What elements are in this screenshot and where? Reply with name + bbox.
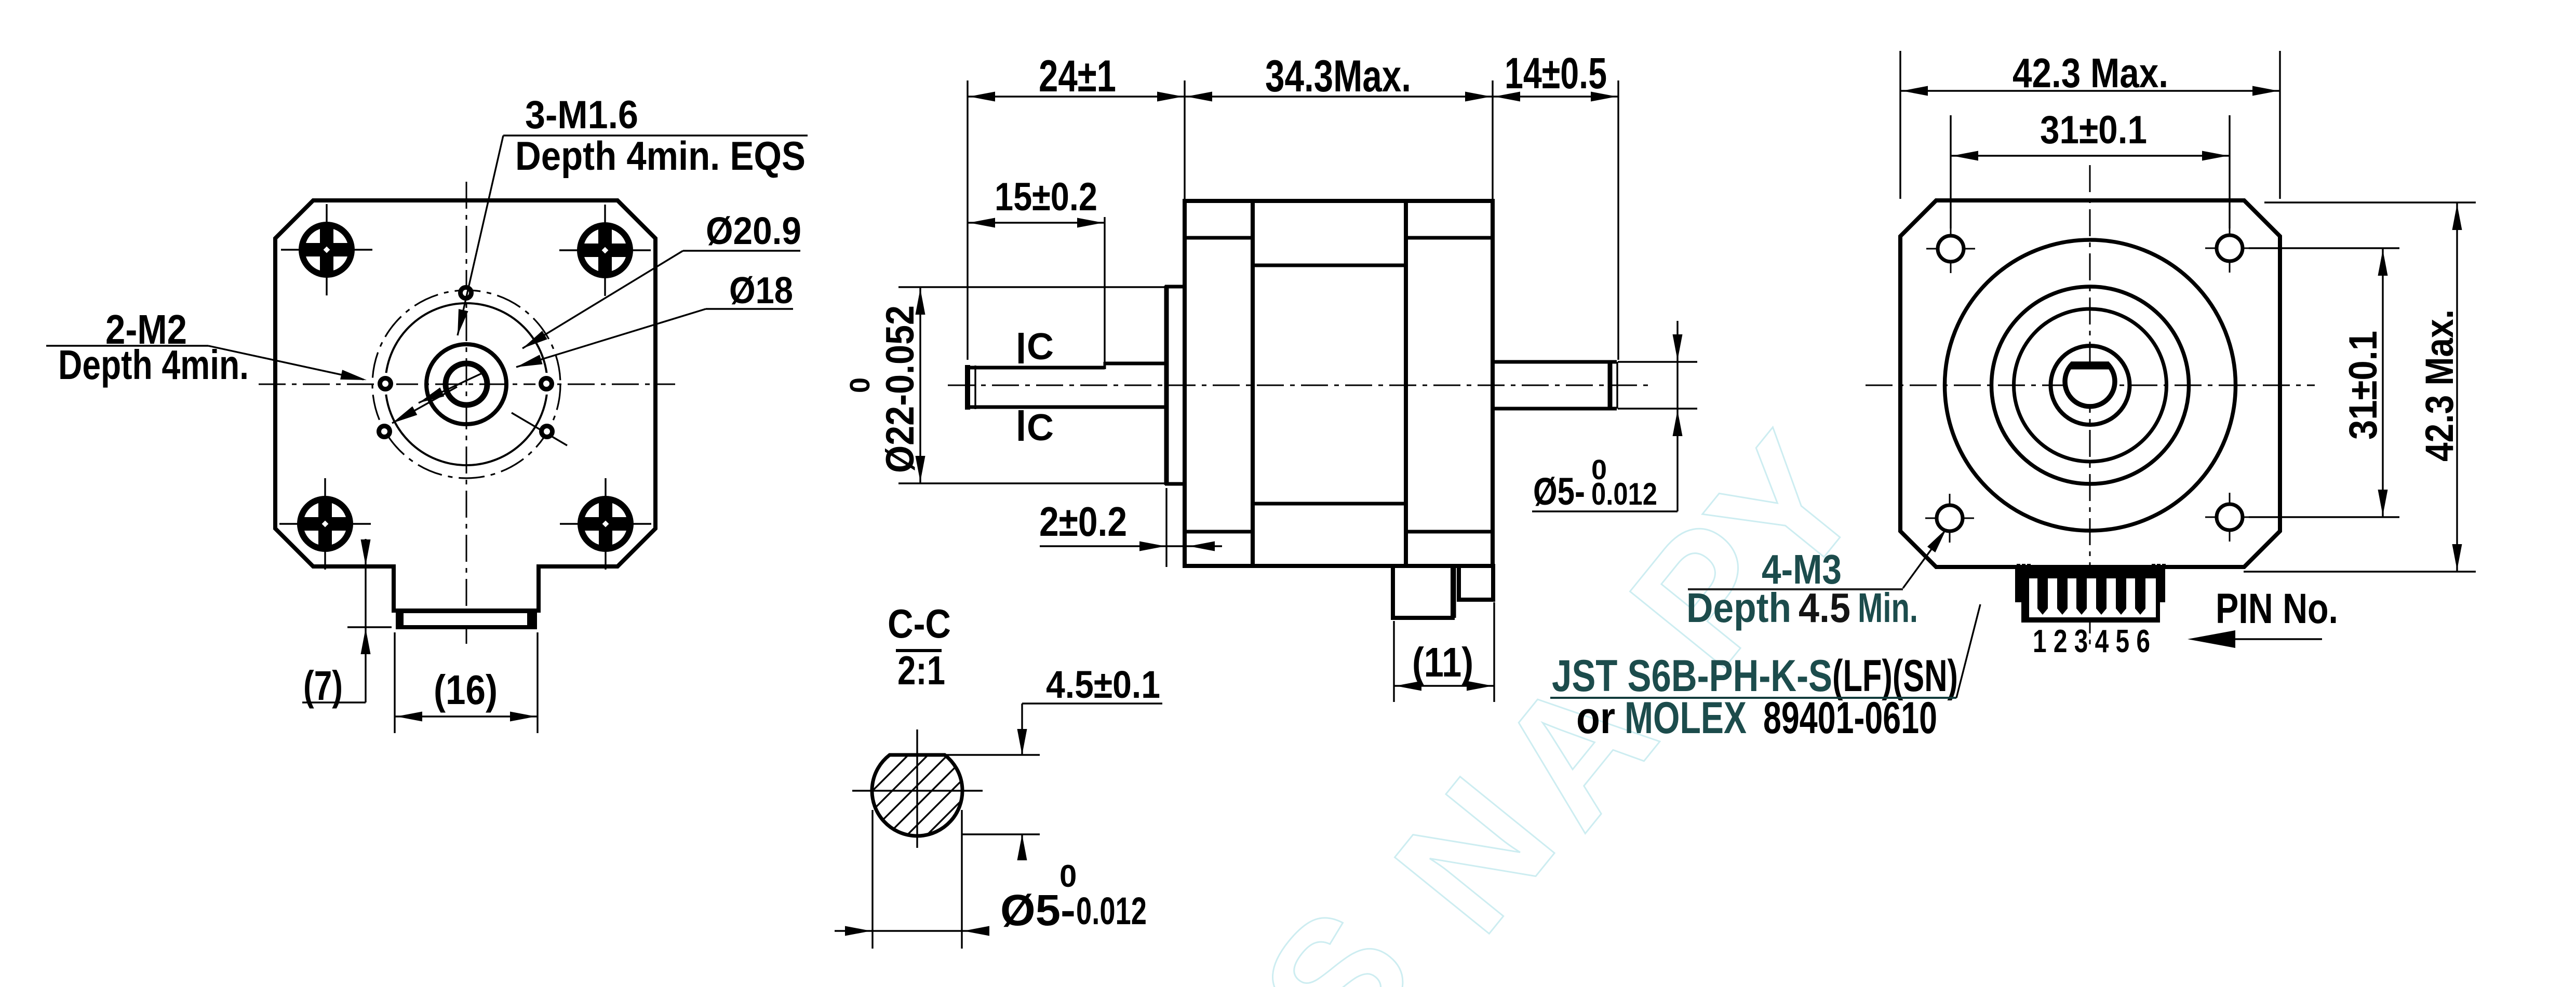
M3 hole bottom-right bbox=[2205, 493, 2254, 542]
rear connector cavity bbox=[2029, 578, 2156, 617]
svg-text:Ø5-: Ø5- bbox=[1533, 470, 1585, 513]
front endcap chamfer line bottom bbox=[1185, 530, 1253, 534]
extra leader arrow to lower area bbox=[419, 373, 483, 403]
extra leader arrow to lower-left hole bbox=[392, 387, 457, 423]
boss face extension line bbox=[1165, 488, 1167, 567]
side connector housing bbox=[1393, 566, 1453, 618]
svg-text:31±0.1: 31±0.1 bbox=[2040, 108, 2147, 152]
rear housing circle bbox=[1945, 240, 2236, 531]
rear 42.3 top extension lines bbox=[1899, 51, 1901, 199]
leader 2-M2 to left hole bbox=[208, 346, 364, 380]
svg-text:14±0.5: 14±0.5 bbox=[1505, 49, 1607, 98]
svg-text:C: C bbox=[1027, 326, 1054, 368]
svg-text:1 2 3 4 5 6: 1 2 3 4 5 6 bbox=[2033, 624, 2150, 659]
extension line front flange face bbox=[1184, 80, 1185, 199]
rear boss circle bbox=[2051, 346, 2130, 425]
extension line shaft end bbox=[967, 80, 968, 360]
(7) leader tail bbox=[302, 701, 366, 703]
Ø18 circle (solid) bbox=[385, 303, 547, 465]
connector pin 4 bbox=[2096, 578, 2107, 615]
svg-text:4.5±0.1: 4.5±0.1 bbox=[1046, 663, 1160, 706]
Ø22 dimension line bbox=[919, 287, 921, 483]
connector pin 2 bbox=[2057, 578, 2068, 615]
svg-text:MOLEX: MOLEX bbox=[1625, 693, 1747, 743]
front shaft end chamfer line bbox=[974, 366, 976, 409]
(11) extension lines bbox=[1393, 621, 1394, 702]
front endcap chamfer line top bbox=[1185, 236, 1253, 240]
rear endcap chamfer line top bbox=[1406, 236, 1493, 240]
front shaft end face bbox=[965, 365, 970, 410]
connector serrations right bbox=[2152, 564, 2155, 569]
svg-text:3-M1.6: 3-M1.6 bbox=[525, 93, 638, 137]
rear circle inner bbox=[2014, 309, 2167, 462]
svg-text:Depth: Depth bbox=[1686, 585, 1791, 631]
4.5 leader tail bbox=[1022, 702, 1162, 704]
pilot boss circle bbox=[426, 344, 506, 424]
svg-text:31±0.1: 31±0.1 bbox=[2341, 331, 2385, 440]
svg-text:15±0.2: 15±0.2 bbox=[995, 175, 1097, 219]
Ø5 extension lines right bbox=[1618, 361, 1697, 362]
section hatching bbox=[829, 662, 1050, 884]
svg-text:42.3 Max.: 42.3 Max. bbox=[2013, 50, 2168, 96]
motor body outline bbox=[1185, 201, 1493, 566]
front connector housing strip bbox=[398, 611, 535, 627]
M3 hole top-left bbox=[1926, 224, 1975, 273]
rear endcap chamfer line bottom bbox=[1406, 530, 1493, 534]
rear 42.3 right extension lines bbox=[2264, 201, 2476, 203]
pilot boss bottom edge bbox=[1165, 482, 1185, 486]
svg-text:Ø20.9: Ø20.9 bbox=[706, 209, 801, 252]
rear view horizontal centerline bbox=[1866, 385, 2315, 386]
(16) dimension line bbox=[395, 715, 538, 717]
M2 hole right bbox=[541, 378, 552, 389]
svg-text:Ø22-0.052: Ø22-0.052 bbox=[878, 305, 922, 473]
svg-text:(16): (16) bbox=[434, 667, 498, 713]
svg-text:C-C: C-C bbox=[888, 601, 951, 646]
Ø22 extension line top bbox=[898, 286, 1166, 288]
side connector inner edge bbox=[1454, 567, 1456, 618]
leader for 3-M1.6 bbox=[458, 136, 503, 335]
corner screw top-right bbox=[559, 205, 651, 296]
leader Ø18 bbox=[516, 309, 706, 367]
svg-text:(11): (11) bbox=[1412, 639, 1473, 685]
svg-text:PIN No.: PIN No. bbox=[2216, 585, 2338, 632]
rear shaft bottom line bbox=[1493, 407, 1617, 411]
M1.6 hole top bbox=[461, 288, 472, 299]
svg-text:(7): (7) bbox=[303, 662, 343, 709]
4.5 extension from bottom bbox=[962, 833, 1040, 835]
rear 31 right dimension line bbox=[2382, 248, 2383, 517]
svg-text:34.3Max.: 34.3Max. bbox=[1265, 51, 1411, 101]
rear endcap boundary bbox=[1404, 201, 1408, 566]
svg-text:2:1: 2:1 bbox=[897, 647, 945, 693]
M1.6 hole lower-right bbox=[542, 426, 553, 437]
svg-text:42.3 Max.: 42.3 Max. bbox=[2418, 309, 2462, 462]
rear circle Ø22 bbox=[1992, 287, 2189, 484]
shaft hole ring bbox=[446, 363, 487, 405]
svg-text:89401-0610: 89401-0610 bbox=[1763, 693, 1937, 743]
4.5 dimension line bbox=[1021, 704, 1023, 755]
svg-text:0.012: 0.012 bbox=[1076, 889, 1147, 932]
rear 31 top dimension line bbox=[1951, 155, 2230, 156]
svg-text:Depth 4min. EQS: Depth 4min. EQS bbox=[515, 133, 806, 179]
front flange outline with chamfers and connector step bbox=[275, 200, 655, 611]
fraction bar bbox=[896, 649, 942, 652]
front shaft flat step bbox=[1104, 362, 1106, 369]
front view vertical centerline bbox=[466, 182, 467, 644]
top dimension line bbox=[968, 96, 1618, 97]
(11) dimension line bbox=[1394, 685, 1494, 686]
corner screw bottom-right bbox=[560, 478, 651, 570]
svg-text:24±1: 24±1 bbox=[1039, 51, 1116, 101]
underline Ø18 bbox=[706, 308, 793, 309]
side view horizontal centerline bbox=[948, 385, 1649, 386]
svg-text:4.5: 4.5 bbox=[1799, 585, 1850, 631]
connector pin 1 bbox=[2037, 578, 2048, 615]
svg-text:or: or bbox=[1576, 693, 1615, 743]
stator stack corner line bottom bbox=[1253, 502, 1406, 506]
front shaft flat top line bbox=[968, 366, 1105, 370]
Ø20.9 bolt circle (dash-dot) bbox=[372, 290, 560, 478]
section horizontal centerline bbox=[852, 790, 983, 791]
svg-text:Min.: Min. bbox=[1858, 585, 1918, 631]
watermark bbox=[1223, 401, 1898, 987]
pilot boss top edge bbox=[1165, 285, 1185, 289]
underline 2-M2 bbox=[46, 345, 208, 346]
svg-text:2±0.2: 2±0.2 bbox=[1039, 498, 1127, 545]
front shaft bottom line bbox=[968, 405, 1166, 409]
rear 31 top extension lines bbox=[1950, 115, 1951, 228]
corner screw top-left bbox=[281, 204, 372, 295]
dimension (7) line bbox=[365, 539, 366, 702]
corner screw bottom-left bbox=[279, 478, 371, 570]
rear shaft top line bbox=[1493, 360, 1617, 364]
Ø5 extension lines bottom bbox=[871, 810, 873, 949]
front endcap boundary bbox=[1251, 201, 1255, 566]
section cut mark top bbox=[1018, 333, 1024, 363]
(16) extension lines bbox=[394, 632, 395, 733]
rear connector housing bbox=[2015, 569, 2165, 623]
rear shaft end face (thin) bbox=[1616, 362, 1618, 409]
underline 3-M1.6 bbox=[503, 134, 808, 136]
leader 4-M3 to hole bbox=[1903, 531, 1945, 588]
(7) extension line at connector bottom bbox=[347, 626, 392, 628]
white breaks on Ø18 at M2 holes bbox=[374, 373, 396, 395]
section shaft outline with flat bbox=[872, 755, 962, 836]
svg-text:C: C bbox=[1027, 407, 1054, 449]
Ø5 dimension line right bbox=[1676, 321, 1678, 511]
Ø5 dimension line bottom bbox=[835, 930, 981, 931]
front shaft top line bbox=[1105, 362, 1166, 366]
front view horizontal centerline bbox=[259, 384, 675, 385]
rear 31 right extension lines bbox=[2249, 247, 2399, 249]
pilot boss face bbox=[1164, 286, 1169, 485]
connector pin 6 bbox=[2135, 578, 2145, 615]
front connector left end block bbox=[396, 613, 404, 626]
svg-text:0.012: 0.012 bbox=[1591, 477, 1657, 511]
diagonal line through lower-right hole bbox=[512, 413, 567, 445]
M2 hole left bbox=[380, 378, 391, 389]
connector pin 5 bbox=[2116, 578, 2126, 615]
leader Ø20.9 bbox=[522, 251, 683, 348]
4.5 extension from flat bbox=[945, 754, 1040, 755]
Ø5 label leader underline bbox=[1532, 510, 1678, 512]
rear 42.3 right dimension line bbox=[2456, 202, 2458, 572]
leader JST to connector bbox=[1956, 604, 1980, 698]
connector pin 3 bbox=[2076, 578, 2087, 615]
section vertical centerline bbox=[916, 729, 918, 848]
extension line shaft flat end bbox=[1104, 217, 1105, 362]
front connector right end block bbox=[527, 613, 535, 626]
rear view vertical centerline bbox=[2089, 165, 2091, 648]
side connector rear block bbox=[1459, 566, 1493, 600]
svg-text:0: 0 bbox=[1059, 859, 1077, 894]
section cut mark bottom bbox=[1018, 410, 1024, 441]
underline JST bbox=[1550, 697, 1956, 699]
svg-text:0: 0 bbox=[844, 377, 876, 393]
rear 42.3 top dimension line bbox=[1900, 90, 2280, 91]
15±0.2 dimension line bbox=[968, 222, 1105, 223]
M1.6 hole lower-left bbox=[379, 426, 390, 437]
stator stack corner line top bbox=[1253, 264, 1406, 267]
underline 4-M3 bbox=[1688, 588, 1903, 590]
Ø22 extension line bottom bbox=[898, 482, 1166, 484]
rear shaft circle with flat bbox=[2065, 364, 2115, 407]
rear shaft chamfer line (bold) bbox=[1608, 362, 1613, 408]
M3 hole bottom-left bbox=[1925, 494, 1974, 543]
rear flange outline bbox=[1900, 200, 2280, 567]
svg-text:Ø18: Ø18 bbox=[729, 270, 793, 312]
M3 hole top-right bbox=[2205, 224, 2254, 273]
extension line rear face bbox=[1492, 80, 1493, 199]
rear shaft flat bar bbox=[2071, 362, 2109, 370]
pin direction arrow bbox=[2188, 630, 2235, 648]
extension line rear shaft end bbox=[1617, 80, 1619, 360]
2±0.2 leader line bbox=[1040, 545, 1222, 547]
underline Ø20.9 bbox=[683, 250, 800, 251]
connector serrations left bbox=[2017, 564, 2020, 569]
